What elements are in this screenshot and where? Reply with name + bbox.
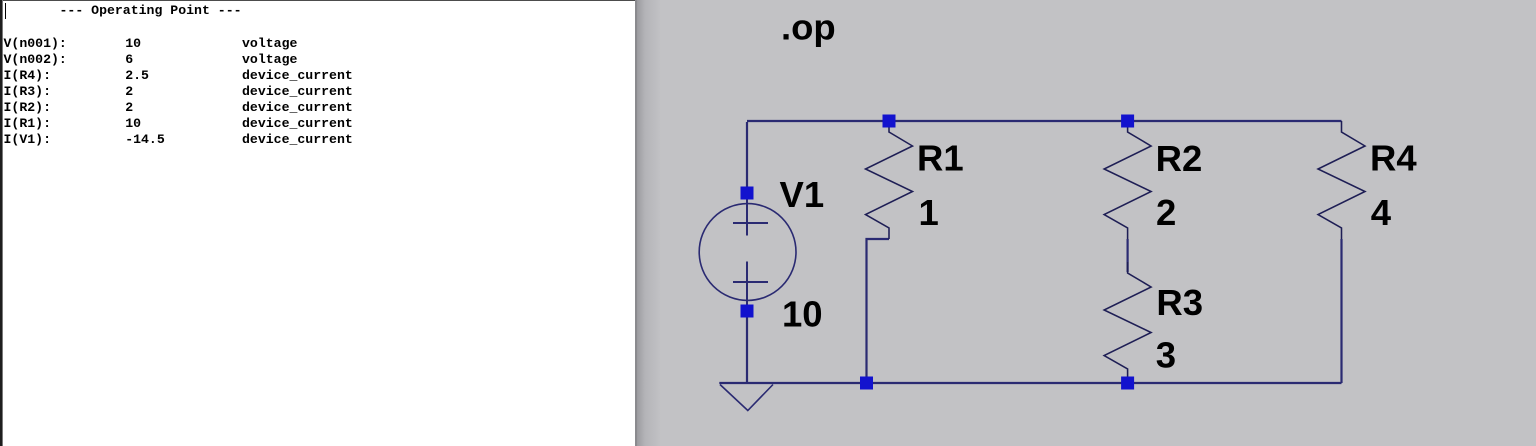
svg-text:.op: .op <box>781 7 836 48</box>
svg-text:2: 2 <box>1156 192 1176 233</box>
wire top rail <box>747 120 1342 122</box>
log names column <box>4 36 67 148</box>
voltage source V1 <box>699 199 796 311</box>
log pane left border light <box>2 0 4 446</box>
wire R1 bottom to bottom rail <box>867 239 890 383</box>
schematic gray pane <box>637 0 1536 446</box>
pane divider <box>635 0 637 446</box>
resistor R4 <box>1318 121 1365 239</box>
log units column <box>242 36 353 148</box>
resistor R1 <box>866 121 913 239</box>
svg-text:R1: R1 <box>917 138 964 179</box>
junction V1 bottom pin <box>741 305 754 318</box>
svg-text:R4: R4 <box>1370 138 1417 179</box>
ground <box>720 385 773 411</box>
log title line <box>60 3 242 19</box>
wire V1 bottom pin to ground <box>746 311 748 383</box>
svg-text:R3: R3 <box>1156 282 1203 323</box>
svg-text:4: 4 <box>1371 192 1392 233</box>
wire R2 bottom to R3 top <box>1126 239 1128 272</box>
junction top rail / R1 <box>883 115 896 128</box>
svg-text:1: 1 <box>919 192 939 233</box>
log pane top border <box>0 0 636 1</box>
junction bottom rail / R3 <box>1121 377 1134 390</box>
log values column <box>125 36 165 148</box>
text caret <box>5 3 7 20</box>
resistor R2 <box>1104 121 1151 239</box>
junction bottom rail / R1 branch <box>860 377 873 390</box>
resistor R3 <box>1104 262 1151 383</box>
junction V1 top pin <box>741 187 754 200</box>
junction top rail / R2 <box>1121 115 1134 128</box>
log pane (white) <box>0 0 637 446</box>
wire R4 bottom to bottom rail corner <box>1340 239 1342 383</box>
svg-text:10: 10 <box>782 293 823 334</box>
log pane left border dark <box>0 0 2 446</box>
wire bottom rail <box>719 382 1341 384</box>
svg-text:R2: R2 <box>1156 138 1203 179</box>
svg-text:3: 3 <box>1156 334 1176 375</box>
wire V1 top pin to top rail <box>746 122 748 193</box>
svg-text:V1: V1 <box>780 174 825 215</box>
